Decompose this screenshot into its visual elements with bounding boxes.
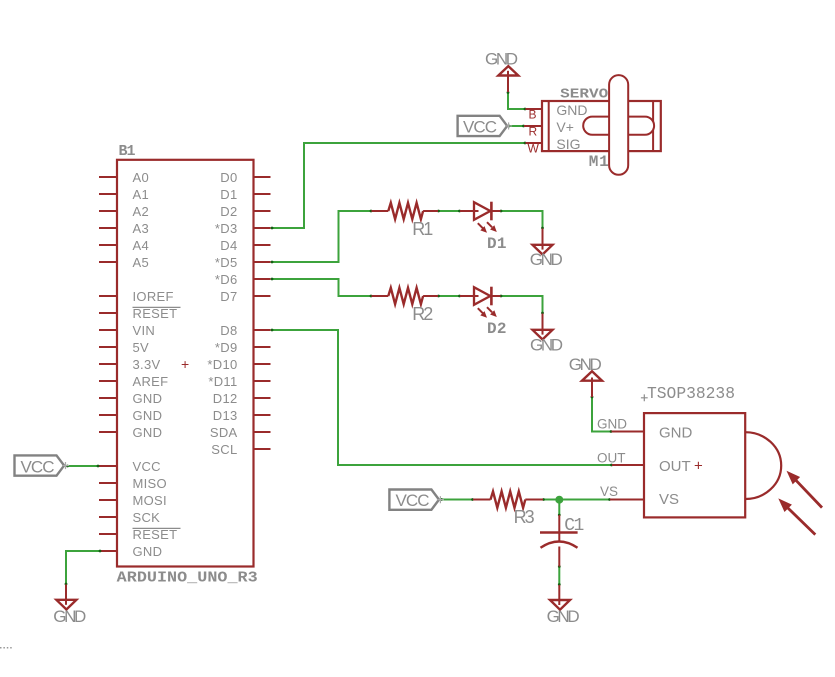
svg-text:RESET: RESET bbox=[133, 306, 178, 321]
svg-text:GND: GND bbox=[133, 408, 163, 423]
svg-text:MOSI: MOSI bbox=[133, 493, 167, 508]
svg-text:D2: D2 bbox=[220, 204, 237, 219]
svg-text:M1: M1 bbox=[589, 153, 609, 171]
svg-text:SDA: SDA bbox=[210, 425, 238, 440]
svg-text:B1: B1 bbox=[119, 143, 136, 160]
svg-text:TSOP38238: TSOP38238 bbox=[647, 385, 735, 404]
svg-text:A1: A1 bbox=[133, 187, 150, 202]
svg-text:AREF: AREF bbox=[133, 374, 169, 389]
svg-text:GND: GND bbox=[569, 355, 602, 374]
svg-text:*D6: *D6 bbox=[215, 272, 238, 287]
svg-text:D4: D4 bbox=[220, 238, 237, 253]
svg-text:B: B bbox=[529, 108, 537, 122]
svg-text:A3: A3 bbox=[133, 221, 150, 236]
svg-text:SCL: SCL bbox=[211, 442, 237, 457]
svg-text:R3: R3 bbox=[514, 507, 535, 527]
svg-text:GND: GND bbox=[547, 607, 580, 626]
svg-text:5V: 5V bbox=[133, 340, 150, 355]
svg-text:*D5: *D5 bbox=[215, 255, 238, 270]
svg-text:W: W bbox=[528, 142, 540, 156]
svg-text:VS: VS bbox=[600, 484, 618, 499]
svg-text:R2: R2 bbox=[412, 304, 433, 324]
svg-text:GND: GND bbox=[530, 250, 563, 269]
svg-text:+: + bbox=[694, 458, 703, 475]
svg-text:GND: GND bbox=[659, 425, 693, 442]
svg-text:VS: VS bbox=[659, 491, 679, 508]
svg-text:ARDUINO_UNO_R3: ARDUINO_UNO_R3 bbox=[117, 570, 258, 586]
svg-text:VIN: VIN bbox=[133, 323, 156, 338]
svg-text:A4: A4 bbox=[133, 238, 150, 253]
svg-text:VCC: VCC bbox=[133, 459, 161, 474]
svg-text:D2: D2 bbox=[487, 320, 507, 338]
svg-text:*D11: *D11 bbox=[208, 374, 237, 389]
svg-text:D1: D1 bbox=[487, 235, 507, 253]
svg-text:*D9: *D9 bbox=[215, 340, 238, 355]
svg-text:SIG: SIG bbox=[556, 136, 580, 152]
svg-text:D8: D8 bbox=[220, 323, 237, 338]
svg-text:MISO: MISO bbox=[133, 476, 167, 491]
svg-text:R1: R1 bbox=[412, 219, 433, 239]
svg-text:VCC: VCC bbox=[396, 491, 430, 510]
svg-text:SCK: SCK bbox=[133, 510, 161, 525]
svg-text:IOREF: IOREF bbox=[133, 289, 174, 304]
svg-text:GND: GND bbox=[133, 391, 163, 406]
svg-text:D0: D0 bbox=[220, 170, 237, 185]
svg-text:GND: GND bbox=[133, 544, 163, 559]
svg-text:D1: D1 bbox=[220, 187, 237, 202]
svg-text:*D3: *D3 bbox=[215, 221, 238, 236]
svg-text:3.3V: 3.3V bbox=[133, 357, 161, 372]
svg-text:RESET: RESET bbox=[133, 527, 178, 542]
svg-text:D12: D12 bbox=[213, 391, 238, 406]
svg-text:GND: GND bbox=[530, 335, 563, 354]
svg-text:SERVO: SERVO bbox=[560, 86, 608, 102]
svg-text:GND: GND bbox=[53, 607, 86, 626]
svg-text:VCC: VCC bbox=[21, 457, 55, 476]
svg-text:VCC: VCC bbox=[463, 117, 497, 136]
svg-text:A2: A2 bbox=[133, 204, 150, 219]
svg-text:OUT: OUT bbox=[597, 451, 626, 466]
svg-text:A0: A0 bbox=[133, 170, 150, 185]
svg-text:+: + bbox=[181, 356, 189, 372]
svg-text:D7: D7 bbox=[220, 289, 237, 304]
svg-text:C1: C1 bbox=[564, 516, 584, 536]
svg-text:GND: GND bbox=[556, 102, 587, 118]
svg-text:GND: GND bbox=[133, 425, 163, 440]
svg-text:GND: GND bbox=[597, 417, 627, 432]
svg-text:GND: GND bbox=[485, 49, 518, 68]
svg-text:V+: V+ bbox=[556, 119, 574, 135]
svg-text:R: R bbox=[529, 125, 538, 139]
svg-text:*D10: *D10 bbox=[207, 357, 237, 372]
svg-text:OUT: OUT bbox=[659, 458, 691, 475]
svg-text:D13: D13 bbox=[213, 408, 238, 423]
svg-text:A5: A5 bbox=[133, 255, 150, 270]
